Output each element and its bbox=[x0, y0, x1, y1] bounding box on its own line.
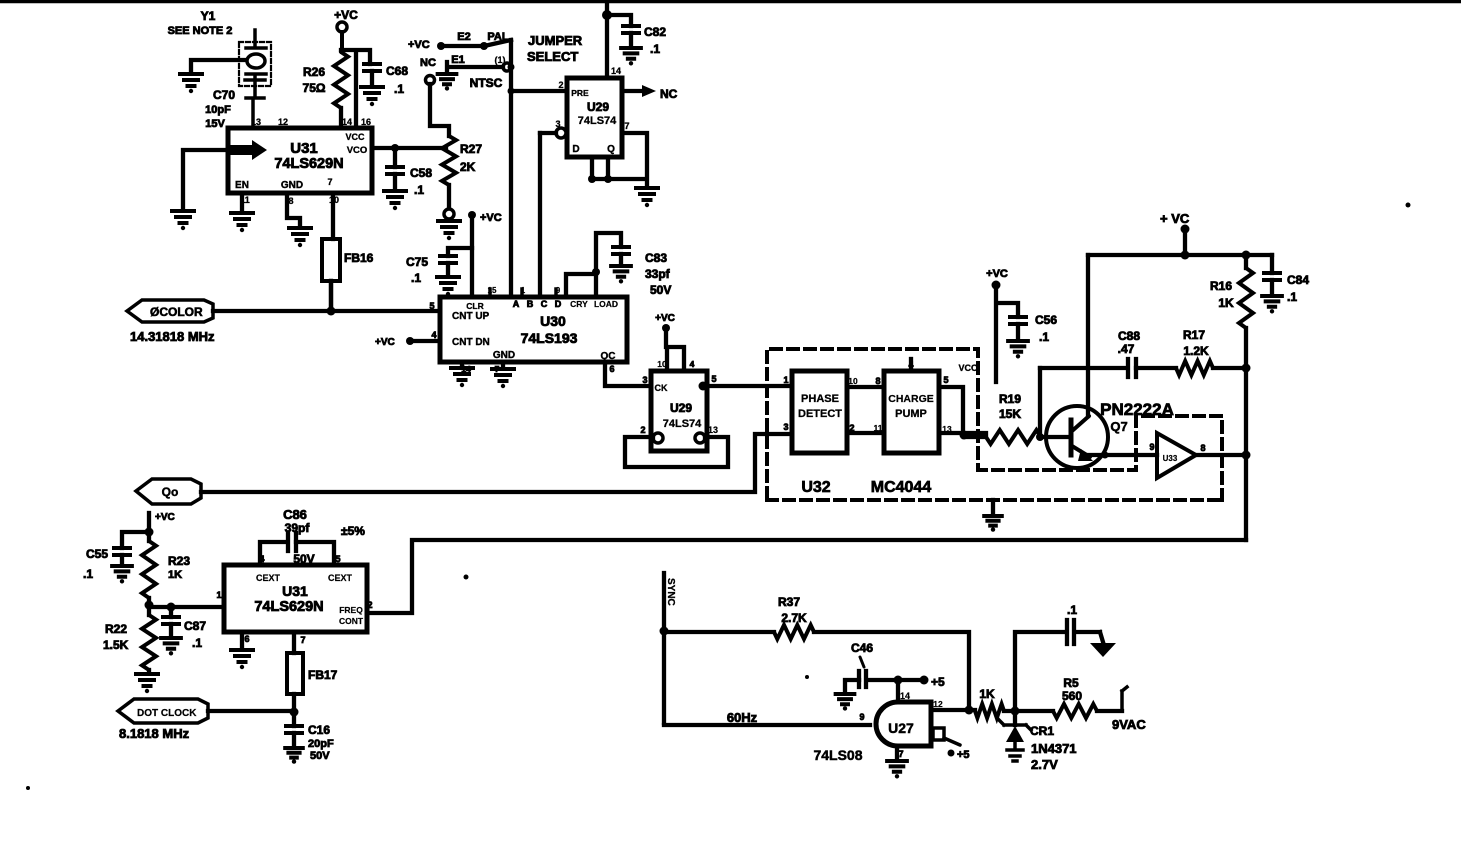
svg-text:R22: R22 bbox=[105, 622, 127, 636]
svg-text:SYNC: SYNC bbox=[665, 578, 676, 606]
svg-text:+5: +5 bbox=[957, 749, 970, 761]
svg-text:6: 6 bbox=[609, 364, 614, 374]
wire collector bbox=[1086, 255, 1090, 416]
svg-text:14: 14 bbox=[342, 117, 352, 127]
resistor R23 bbox=[142, 541, 190, 610]
transistor Q7 PN2222A bbox=[1046, 400, 1174, 468]
svg-text:.1: .1 bbox=[83, 567, 93, 581]
wire U29A D input bbox=[511, 89, 567, 93]
svg-text:1.2K: 1.2K bbox=[1183, 344, 1209, 358]
jumper E2 PAL bbox=[437, 31, 511, 50]
capacitor C83 bbox=[566, 233, 671, 297]
wire QC to U29B clock bbox=[605, 362, 651, 386]
power +VC bbox=[334, 8, 358, 52]
svg-text:50V: 50V bbox=[650, 283, 671, 297]
svg-text:R37: R37 bbox=[778, 595, 800, 609]
svg-text:NTSC: NTSC bbox=[470, 76, 503, 90]
ground bbox=[285, 748, 303, 764]
svg-text:+VC: +VC bbox=[155, 512, 175, 523]
ground bbox=[621, 48, 641, 65]
svg-text:C46: C46 bbox=[851, 641, 873, 655]
svg-text:+VC: +VC bbox=[986, 268, 1008, 280]
svg-text:U31: U31 bbox=[282, 583, 308, 599]
svg-text:R23: R23 bbox=[168, 554, 190, 568]
svg-text:4: 4 bbox=[431, 330, 436, 340]
svg-text:8: 8 bbox=[288, 196, 293, 206]
svg-text:CR1: CR1 bbox=[1030, 724, 1054, 738]
wire FB16 lower bbox=[329, 281, 333, 311]
svg-text:NC: NC bbox=[420, 57, 436, 69]
svg-text:PHASE: PHASE bbox=[801, 393, 839, 405]
node NC output bbox=[622, 85, 678, 101]
capacitor C68 bbox=[364, 64, 408, 96]
scan speckle bbox=[26, 203, 1411, 791]
svg-text:1K: 1K bbox=[168, 569, 182, 581]
svg-text:C75: C75 bbox=[406, 255, 428, 269]
svg-text:74LS08: 74LS08 bbox=[813, 747, 862, 763]
svg-text:PRE: PRE bbox=[571, 88, 589, 98]
ground bbox=[636, 188, 658, 207]
svg-text:10pF: 10pF bbox=[205, 104, 231, 116]
wire U27 output bbox=[931, 706, 975, 715]
svg-text:C87: C87 bbox=[184, 619, 206, 633]
svg-text:Qo: Qo bbox=[162, 485, 179, 499]
svg-text:DOT CLOCK: DOT CLOCK bbox=[137, 708, 197, 719]
label JUMPER SELECT bbox=[527, 33, 583, 64]
svg-text:C84: C84 bbox=[1287, 273, 1309, 287]
ferrite bead FB17 bbox=[287, 632, 338, 717]
svg-text:ØCOLOR: ØCOLOR bbox=[150, 305, 203, 319]
svg-text:+VC: +VC bbox=[408, 39, 430, 51]
svg-text:1K: 1K bbox=[1218, 296, 1234, 310]
svg-text:CRY: CRY bbox=[570, 299, 588, 309]
svg-text:C88: C88 bbox=[1118, 329, 1140, 343]
svg-text:2K: 2K bbox=[460, 160, 476, 174]
wire crystal case to ground bbox=[191, 60, 246, 72]
ground bbox=[136, 674, 158, 693]
ground bbox=[1262, 296, 1282, 313]
ground bbox=[361, 87, 383, 106]
wire phase to pump bbox=[847, 387, 884, 433]
resistor R27 bbox=[442, 136, 482, 208]
svg-text:74LS629N: 74LS629N bbox=[274, 156, 343, 172]
svg-text:A: A bbox=[513, 299, 520, 309]
flip-flop U29 section B 74LS74 bbox=[640, 359, 718, 451]
wire to U31 input bbox=[149, 603, 224, 612]
power +VC bbox=[1160, 211, 1190, 260]
svg-text:R5: R5 bbox=[1063, 676, 1079, 690]
capacitor C56 bbox=[1010, 313, 1057, 344]
svg-text:+5: +5 bbox=[931, 675, 945, 689]
buffer U33 bbox=[1149, 433, 1205, 478]
svg-text:9VAC: 9VAC bbox=[1112, 717, 1146, 732]
svg-text:EN: EN bbox=[235, 180, 249, 191]
wire U29B output bbox=[699, 382, 793, 391]
ground bbox=[887, 761, 907, 778]
svg-text:3: 3 bbox=[642, 375, 647, 385]
svg-text:C55: C55 bbox=[86, 547, 108, 561]
wire U31 pin6 ground bbox=[240, 632, 244, 648]
svg-text:2.7V: 2.7V bbox=[1031, 757, 1058, 772]
svg-text:14.31818 MHz: 14.31818 MHz bbox=[130, 329, 215, 344]
ground bbox=[231, 650, 253, 669]
svg-text:FB17: FB17 bbox=[308, 668, 338, 682]
svg-text:Q7: Q7 bbox=[1110, 419, 1127, 434]
ground bbox=[984, 516, 1002, 532]
svg-text:+VC: +VC bbox=[375, 337, 395, 348]
svg-text:3: 3 bbox=[783, 422, 788, 432]
svg-text:5: 5 bbox=[335, 554, 340, 564]
svg-text:20pF: 20pF bbox=[308, 738, 334, 750]
wire U29B preset +VC bbox=[655, 313, 684, 371]
node COLOR connector bbox=[127, 300, 215, 344]
wire U29A ground net bbox=[588, 133, 647, 186]
wire top rail bbox=[1088, 251, 1272, 260]
capacitor C86 bbox=[260, 507, 365, 566]
svg-text:Y1: Y1 bbox=[201, 9, 216, 23]
svg-text:15V: 15V bbox=[205, 118, 225, 130]
node NC jumper bbox=[408, 39, 449, 136]
svg-text:FREQ: FREQ bbox=[339, 605, 363, 615]
svg-text:33pf: 33pf bbox=[645, 267, 671, 281]
svg-text:12: 12 bbox=[933, 699, 943, 709]
svg-text:R26: R26 bbox=[303, 65, 325, 79]
svg-text:.1: .1 bbox=[394, 82, 404, 96]
capacitor C84 bbox=[1264, 255, 1309, 304]
capacitor C87 bbox=[163, 607, 206, 650]
ground bbox=[1008, 341, 1028, 358]
svg-text:1K: 1K bbox=[979, 687, 995, 701]
svg-text:.1: .1 bbox=[192, 636, 202, 650]
resistor R26 bbox=[303, 52, 348, 128]
capacitor C58 bbox=[387, 148, 432, 197]
wire U31 range pin to ground bbox=[183, 150, 228, 209]
wire +VC rail bbox=[341, 50, 370, 124]
node 9VAC input bbox=[1112, 687, 1146, 732]
svg-text:SEE NOTE 2: SEE NOTE 2 bbox=[168, 25, 233, 37]
phase detector block bbox=[783, 371, 858, 453]
resistor R22 bbox=[103, 605, 156, 672]
svg-text:7: 7 bbox=[300, 635, 305, 645]
ground bbox=[289, 228, 311, 247]
svg-text:NC: NC bbox=[660, 87, 678, 101]
wire U30 pin7 ground bbox=[501, 362, 505, 367]
svg-text:75Ω: 75Ω bbox=[303, 81, 326, 95]
svg-text:VCO: VCO bbox=[347, 145, 368, 156]
ferrite bead FB16 bbox=[322, 193, 374, 310]
svg-text:.1: .1 bbox=[650, 42, 660, 56]
svg-text:U27: U27 bbox=[888, 720, 914, 736]
svg-text:5: 5 bbox=[943, 375, 948, 385]
resistor R17 bbox=[1176, 328, 1246, 375]
resistor R37 bbox=[660, 595, 970, 710]
ground bbox=[611, 266, 631, 283]
svg-text:U29: U29 bbox=[587, 100, 609, 114]
pad under R27 bbox=[444, 209, 454, 219]
capacitor C55 bbox=[83, 532, 149, 581]
svg-text:E2: E2 bbox=[457, 31, 470, 43]
charge pump block bbox=[874, 360, 952, 453]
svg-text:B: B bbox=[527, 299, 534, 309]
ground bbox=[438, 221, 460, 240]
wire right rail bbox=[1242, 364, 1251, 541]
svg-text:JUMPER: JUMPER bbox=[528, 33, 583, 48]
svg-text:QC: QC bbox=[601, 351, 616, 362]
svg-text:39pf: 39pf bbox=[285, 521, 311, 535]
crystal Y1 bbox=[168, 9, 271, 128]
svg-text:.1: .1 bbox=[1067, 603, 1077, 617]
svg-text:1.5K: 1.5K bbox=[103, 638, 129, 652]
wire U31 output bbox=[372, 144, 446, 152]
IC U32 MC4044 dashed outline bbox=[767, 349, 1222, 500]
svg-text:CEXT: CEXT bbox=[256, 573, 281, 583]
svg-text:PUMP: PUMP bbox=[895, 408, 927, 420]
svg-text:R19: R19 bbox=[999, 392, 1021, 406]
svg-text:U30: U30 bbox=[540, 313, 566, 329]
wire top rail to U29 bbox=[602, 0, 612, 78]
svg-text:9: 9 bbox=[859, 712, 864, 722]
svg-text:U29: U29 bbox=[670, 401, 692, 415]
wire VCC feed bbox=[958, 285, 1018, 382]
svg-text:U31: U31 bbox=[290, 140, 318, 157]
svg-text:7: 7 bbox=[624, 121, 629, 131]
ground bbox=[180, 74, 202, 93]
svg-text:1N4371: 1N4371 bbox=[1031, 741, 1077, 756]
svg-text:12: 12 bbox=[278, 117, 288, 127]
wire Qo to phase detector bbox=[201, 434, 792, 492]
svg-text:U33: U33 bbox=[1163, 454, 1178, 463]
capacitor C46 bbox=[845, 641, 898, 692]
node Qo connector bbox=[136, 479, 201, 504]
resistor R16 bbox=[1210, 255, 1253, 368]
svg-text:.47: .47 bbox=[1118, 342, 1135, 356]
svg-text:60Hz: 60Hz bbox=[727, 710, 758, 725]
svg-text:+VC: +VC bbox=[334, 8, 358, 22]
svg-text:C83: C83 bbox=[645, 251, 667, 265]
wire COLOR to U30 bbox=[213, 307, 440, 316]
ground bbox=[451, 368, 473, 387]
wire pump pin4 stub bbox=[909, 359, 913, 371]
flip-flop U29 section A 74LS74 bbox=[555, 66, 629, 157]
ground bbox=[384, 191, 406, 210]
svg-text:LOAD: LOAD bbox=[594, 299, 618, 309]
wire emitter bbox=[1089, 452, 1157, 459]
svg-text:CLR: CLR bbox=[466, 301, 483, 311]
svg-text:D: D bbox=[555, 299, 562, 309]
wire U30 pin14 ground bbox=[460, 362, 464, 366]
svg-text:C86: C86 bbox=[283, 507, 307, 522]
svg-text:GND: GND bbox=[281, 180, 303, 191]
svg-text:5: 5 bbox=[711, 374, 716, 384]
ground bbox=[161, 638, 181, 655]
svg-text:CNT UP: CNT UP bbox=[452, 311, 490, 322]
wire U27 vcc bbox=[894, 675, 946, 702]
svg-text:DETECT: DETECT bbox=[798, 408, 842, 420]
oscillator IC U31 74LS629N bbox=[216, 554, 372, 645]
svg-text:8: 8 bbox=[875, 376, 880, 386]
ground bbox=[836, 694, 855, 711]
power +VC bbox=[986, 268, 1008, 290]
wire feedback to base bbox=[1036, 368, 1044, 441]
svg-text:9: 9 bbox=[1149, 442, 1154, 452]
wire sync input bbox=[664, 573, 676, 723]
svg-text:R16: R16 bbox=[1210, 279, 1232, 293]
svg-text:1: 1 bbox=[216, 590, 221, 600]
svg-text:10: 10 bbox=[848, 376, 858, 386]
ground bbox=[112, 566, 132, 583]
capacitor C16 bbox=[286, 712, 334, 762]
wire 60Hz input bbox=[664, 710, 870, 725]
op IC U31 74LS629N (VCO) bbox=[228, 117, 372, 206]
svg-text:74LS74: 74LS74 bbox=[578, 115, 617, 127]
svg-text:7: 7 bbox=[898, 749, 903, 759]
svg-text:15K: 15K bbox=[999, 407, 1021, 421]
svg-text:C56: C56 bbox=[1035, 313, 1057, 327]
resistor R19 bbox=[964, 392, 1071, 444]
capacitor C88 bbox=[1040, 329, 1176, 377]
capacitor .1 bypass bbox=[1015, 603, 1103, 712]
wire U31 pin8 GND bbox=[287, 193, 300, 226]
svg-text:+ VC: + VC bbox=[1160, 211, 1190, 226]
resistor R5 bbox=[1053, 676, 1122, 718]
svg-text:.1: .1 bbox=[414, 183, 424, 197]
ground bbox=[231, 213, 253, 232]
svg-text:74LS74: 74LS74 bbox=[663, 418, 702, 430]
svg-text:50V: 50V bbox=[293, 552, 314, 566]
svg-text:VCC: VCC bbox=[958, 363, 978, 373]
svg-text:.1: .1 bbox=[411, 271, 421, 285]
svg-text:7: 7 bbox=[327, 177, 332, 187]
wire U29B clear loop bbox=[625, 433, 728, 467]
node +VC bbox=[468, 211, 502, 293]
svg-text:6: 6 bbox=[244, 634, 249, 644]
svg-text:±5%: ±5% bbox=[341, 524, 365, 538]
svg-text:Q: Q bbox=[607, 144, 615, 155]
ground bbox=[437, 277, 459, 296]
svg-text:8.1818 MHz: 8.1818 MHz bbox=[119, 726, 190, 741]
wire U27 pin7 ground bbox=[895, 746, 899, 759]
svg-text:14: 14 bbox=[611, 66, 621, 76]
wire jumper to U30 pin bbox=[508, 40, 515, 293]
svg-text:GND: GND bbox=[493, 350, 515, 361]
svg-text:PN2222A: PN2222A bbox=[1100, 400, 1174, 419]
svg-text:CONT: CONT bbox=[339, 616, 364, 626]
ground bbox=[492, 369, 514, 388]
svg-text:CHARGE: CHARGE bbox=[888, 393, 934, 405]
svg-text:SELECT: SELECT bbox=[527, 49, 578, 64]
svg-text:C70: C70 bbox=[213, 88, 235, 102]
AND gate U27 74LS08 bbox=[813, 691, 943, 763]
capacitor C82 bbox=[607, 15, 666, 56]
svg-text:4: 4 bbox=[690, 359, 695, 369]
power +VC bbox=[145, 512, 175, 541]
svg-text:D: D bbox=[572, 144, 579, 155]
wire pump output bbox=[939, 387, 986, 440]
svg-text:MC4044: MC4044 bbox=[871, 479, 932, 496]
svg-text:+VC: +VC bbox=[655, 313, 675, 324]
svg-text:2: 2 bbox=[558, 80, 563, 90]
svg-text:E1: E1 bbox=[451, 54, 464, 66]
svg-text:13: 13 bbox=[708, 425, 718, 435]
wire U27 unused input bbox=[933, 728, 970, 761]
wire U31 pin11 to ground bbox=[240, 193, 244, 211]
svg-text:FB16: FB16 bbox=[344, 251, 374, 265]
svg-text:74LS629N: 74LS629N bbox=[254, 599, 323, 615]
node DOT CLOCK connector bbox=[118, 699, 208, 741]
zener diode CR1 bbox=[999, 711, 1077, 772]
svg-text:5: 5 bbox=[429, 301, 434, 311]
svg-text:1: 1 bbox=[783, 375, 788, 385]
svg-text:16: 16 bbox=[361, 117, 371, 127]
svg-text:2: 2 bbox=[367, 600, 372, 610]
svg-text:CEXT: CEXT bbox=[328, 573, 353, 583]
capacitor C75 bbox=[406, 248, 472, 285]
svg-text:.1: .1 bbox=[1287, 290, 1297, 304]
svg-text:74LS193: 74LS193 bbox=[521, 330, 578, 346]
svg-text:R27: R27 bbox=[460, 142, 482, 156]
wire VCO control bbox=[367, 540, 1246, 613]
wire U29A clear bbox=[540, 128, 566, 293]
svg-text:C68: C68 bbox=[386, 64, 408, 78]
ground bbox=[172, 211, 194, 230]
wire buffer output bbox=[1196, 451, 1251, 460]
ground bbox=[438, 74, 457, 91]
svg-text:13: 13 bbox=[251, 117, 261, 127]
svg-text:2: 2 bbox=[640, 425, 645, 435]
jumper E1 NTSC bbox=[447, 54, 511, 90]
svg-text:C58: C58 bbox=[410, 166, 432, 180]
svg-text:14: 14 bbox=[900, 691, 910, 701]
counter IC U30 74LS193 bbox=[429, 286, 627, 374]
svg-text:VCC: VCC bbox=[345, 132, 365, 142]
svg-text:+VC: +VC bbox=[480, 212, 502, 224]
svg-text:8: 8 bbox=[1200, 443, 1205, 453]
svg-text:U32: U32 bbox=[801, 479, 830, 496]
wire U30 count-down +VC bbox=[375, 337, 440, 348]
wire U32 ground pin bbox=[991, 500, 995, 514]
svg-text:C: C bbox=[541, 299, 548, 309]
svg-text:R17: R17 bbox=[1183, 328, 1205, 342]
svg-text:50V: 50V bbox=[310, 750, 330, 762]
chassis ground bbox=[1090, 643, 1116, 657]
capacitor C70 label bbox=[205, 88, 235, 130]
resistor 1K bbox=[975, 687, 1053, 718]
wire DOT CLOCK bbox=[208, 709, 294, 713]
svg-text:C82: C82 bbox=[644, 25, 666, 39]
svg-text:CNT DN: CNT DN bbox=[452, 337, 490, 348]
svg-text:C16: C16 bbox=[308, 723, 330, 737]
svg-text:CK: CK bbox=[655, 383, 668, 393]
svg-text:.1: .1 bbox=[1039, 330, 1049, 344]
